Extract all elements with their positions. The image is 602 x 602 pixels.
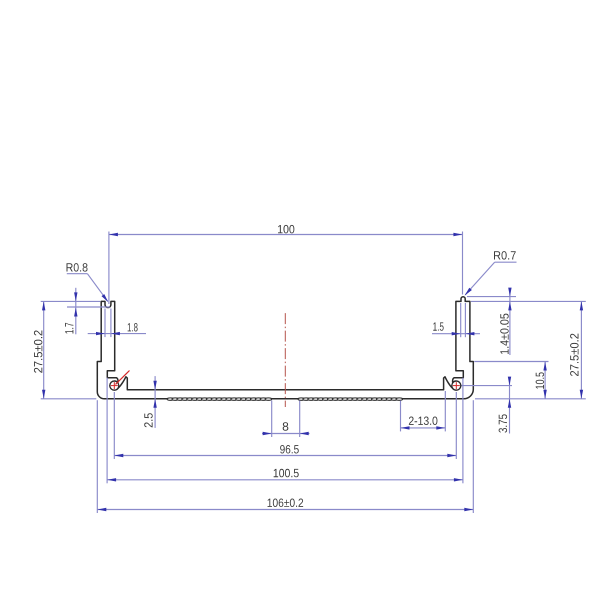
dim 1.4 +-0.05 (509, 289, 511, 356)
extension line flange step right (474, 361, 548, 363)
dim 27.5 +-0.2 right (580, 301, 582, 398)
left screw center cross and thread mark (111, 371, 130, 390)
dim 1.7 (75, 288, 77, 335)
right screw port circle (452, 381, 461, 390)
extension line dim 96.5 right (455, 392, 457, 459)
extension line dim 100 right (462, 232, 464, 295)
extension line dim 100 left (108, 232, 110, 305)
leader R0.7 (495, 261, 517, 263)
extension line wall top left (41, 300, 100, 302)
red centerline (284, 313, 286, 407)
dim 3.75 (509, 379, 511, 434)
extension line dim 100.5 left (106, 378, 108, 484)
dim 96.5 (114, 455, 456, 457)
dim 2.5 (154, 376, 156, 428)
extension line dim 106 left (96, 400, 98, 513)
extension line dim 1.5 right (464, 303, 466, 337)
extension line slot bottom (67, 306, 110, 308)
dim 8 (262, 433, 310, 435)
dim 100 top (109, 234, 463, 236)
extension line wall top right (471, 300, 586, 302)
right screw center cross (453, 382, 460, 389)
extension line dim 8 right (299, 401, 301, 438)
extrusion profile outline (97, 297, 473, 399)
extension line dim 1.5 left (460, 303, 462, 337)
extension line dim 96.5 left (113, 392, 115, 459)
extension line dim 2-13.0 left (400, 401, 402, 432)
extension line dim 106 right (472, 400, 474, 513)
extension line dim 1.8 left (104, 309, 106, 338)
dim 27.5 +-0.2 left (43, 301, 45, 398)
dim 106 +-0.2 (97, 509, 473, 511)
dim 1.8 (88, 333, 146, 335)
leader R0.8 (67, 273, 88, 275)
dim 100.5 (107, 479, 463, 481)
extension line bottom right (475, 398, 586, 400)
extension line bottom left (41, 398, 97, 400)
dim 1.5 (432, 333, 480, 335)
extension line nub top (467, 296, 516, 298)
serration band on bottom face (167, 398, 403, 400)
dim 2-13.0 (401, 427, 446, 429)
extension line dim 100.5 right (462, 378, 464, 484)
extension line dim 1.8 right (110, 309, 112, 338)
left screw port circle (110, 381, 119, 390)
extension line dim 2-13.0 right (444, 391, 446, 431)
extension line dim 8 left (271, 401, 273, 438)
dim 10.5 (544, 362, 546, 399)
extension line screw center right (462, 385, 513, 387)
